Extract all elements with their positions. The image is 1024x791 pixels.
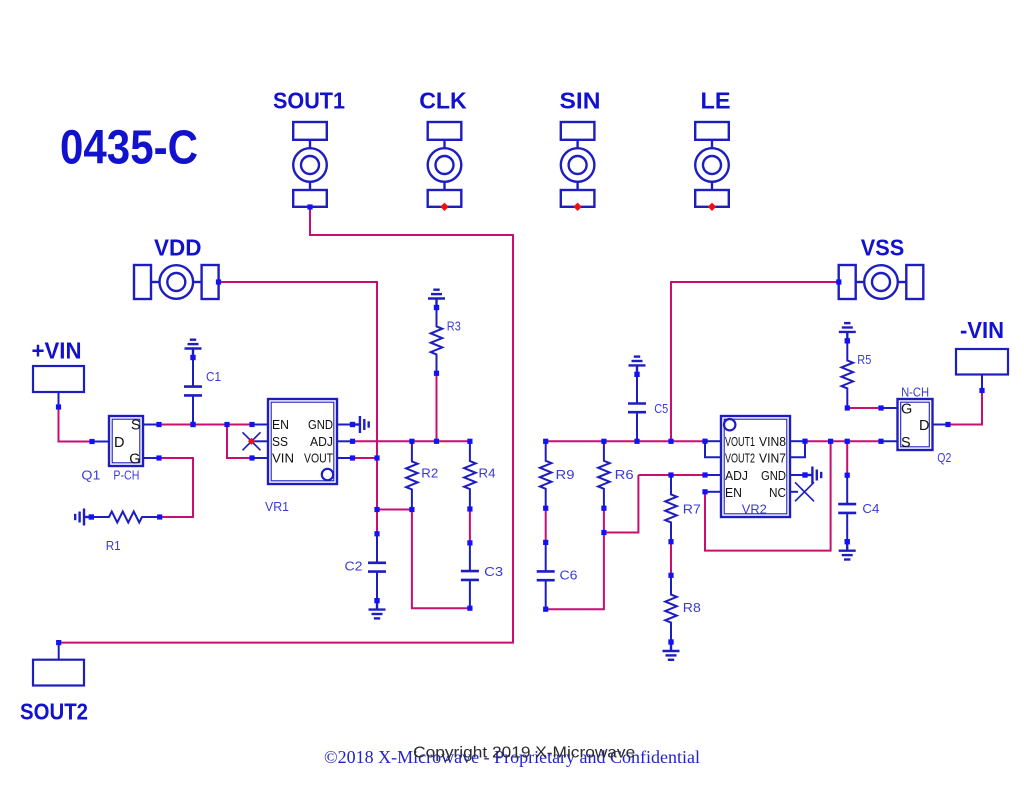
- svg-text:S: S: [901, 435, 911, 451]
- svg-text:C5: C5: [654, 401, 668, 416]
- resistor R7: [665, 475, 677, 542]
- svg-text:GND: GND: [761, 469, 786, 483]
- svg-text:VOUT2: VOUT2: [725, 451, 755, 465]
- pad -VIN: [956, 349, 1008, 375]
- svg-text:G: G: [901, 402, 912, 418]
- IC VR1 regulator: [268, 399, 337, 484]
- svg-text:SS: SS: [272, 435, 288, 449]
- junction VDD/R2 bottom: [374, 507, 379, 512]
- svg-text:R6: R6: [615, 467, 634, 482]
- svg-text:VR1: VR1: [265, 499, 289, 514]
- capacitor C4: [838, 475, 856, 542]
- svg-text:VR2: VR2: [742, 502, 767, 517]
- wire Q1 G to R1: [160, 458, 193, 517]
- wire +VIN to Q1 D: [59, 407, 93, 442]
- svg-text:D: D: [919, 418, 929, 434]
- wire R3 drop: [436, 373, 438, 441]
- svg-text:C1: C1: [206, 369, 221, 384]
- wire R4 to C3: [469, 509, 471, 543]
- resistor R5: [842, 341, 854, 408]
- capacitor C3: [461, 543, 479, 608]
- resistor R1: [91, 512, 159, 523]
- svg-text:EN: EN: [272, 418, 289, 432]
- svg-text:LE: LE: [701, 88, 731, 114]
- no-connect X on VR1 SS: [243, 432, 261, 450]
- wire R2 bottom branch: [377, 509, 412, 511]
- capacitor C2: [368, 534, 386, 601]
- svg-text:+VIN: +VIN: [32, 338, 82, 364]
- capacitor C5: [628, 374, 646, 441]
- svg-text:C2: C2: [345, 559, 363, 574]
- wire VSS to VIN row: [671, 282, 839, 441]
- svg-text:VSS: VSS: [861, 235, 905, 261]
- pad SOUT2: [33, 660, 84, 686]
- no-connect X on VR2 NC: [795, 482, 814, 501]
- svg-text:CLK: CLK: [419, 88, 467, 114]
- svg-text:VDD: VDD: [154, 235, 202, 261]
- transistor Q1 P-CH: [109, 416, 143, 466]
- capacitor C6: [537, 542, 555, 609]
- svg-text:NC: NC: [769, 486, 786, 500]
- wire ADJ row VR1: [353, 440, 470, 442]
- connector LE: [695, 122, 729, 207]
- svg-text:R7: R7: [683, 502, 701, 517]
- svg-text:C3: C3: [484, 564, 503, 579]
- resistor R4: [464, 441, 476, 509]
- transistor Q2 N-CH: [898, 399, 933, 450]
- wire R6 bottom to C6 bottom: [546, 508, 604, 609]
- wire branch to VIN pin: [227, 425, 252, 459]
- ground VR1 GND pin: [353, 416, 369, 433]
- svg-text:N-CH: N-CH: [901, 385, 929, 400]
- ground VR2 GND pin: [805, 467, 821, 484]
- wire SOUT1 to SOUT2 net: [59, 207, 513, 643]
- svg-text:ADJ: ADJ: [310, 435, 333, 449]
- ground R5: [839, 323, 856, 341]
- wire EN2 loop: [705, 441, 831, 550]
- ground R3: [428, 290, 445, 308]
- svg-text:VIN7: VIN7: [759, 451, 786, 465]
- svg-text:C6: C6: [560, 568, 578, 583]
- connector VDD: [134, 265, 219, 299]
- svg-text:G: G: [129, 452, 140, 468]
- wire R7 to R8: [670, 542, 672, 576]
- wire ADJ2 to R6 bottom: [604, 475, 639, 533]
- svg-text:R1: R1: [106, 538, 121, 553]
- svg-text:Q1: Q1: [81, 468, 100, 483]
- svg-text:D: D: [114, 435, 124, 451]
- wire right VIN8 row to Q2 S: [805, 440, 881, 442]
- resistor R2: [406, 441, 418, 509]
- wire S/C1/EN row: [159, 424, 252, 426]
- wire ADJ2 row: [638, 474, 705, 476]
- ground C1: [185, 340, 202, 358]
- wire R5 to Q2 G: [847, 407, 881, 409]
- svg-text:VIN: VIN: [272, 452, 294, 466]
- svg-text:VOUT: VOUT: [304, 452, 333, 466]
- junction R3 on ADJ row: [434, 439, 439, 444]
- svg-text:R5: R5: [857, 352, 871, 367]
- junction C1/S row: [190, 422, 195, 427]
- svg-text:VOUT1: VOUT1: [725, 435, 755, 449]
- junction R6 bottom branch: [601, 530, 606, 535]
- resistor R6: [598, 441, 610, 508]
- svg-text:R4: R4: [479, 466, 496, 481]
- ground C4: [839, 542, 856, 560]
- junction VSS drop: [668, 439, 673, 444]
- svg-text:VIN8: VIN8: [759, 435, 786, 449]
- IC VR2 regulator: [721, 416, 790, 517]
- resistor R9: [540, 441, 552, 508]
- svg-text:S: S: [131, 418, 141, 434]
- wire C4 drop: [846, 441, 848, 475]
- connector CLK: [428, 122, 462, 207]
- svg-text:0435-C: 0435-C: [60, 122, 198, 175]
- ground C5: [629, 357, 646, 375]
- resistor R3: [431, 308, 443, 374]
- svg-text:P-CH: P-CH: [113, 468, 139, 483]
- svg-text:SIN: SIN: [560, 88, 601, 114]
- wire left VIN row: [546, 440, 705, 442]
- svg-text:-VIN: -VIN: [960, 317, 1004, 343]
- svg-text:GND: GND: [308, 418, 333, 432]
- wire VDD to VOUT/C2 vertical: [219, 282, 378, 534]
- svg-text:Q2: Q2: [937, 450, 951, 465]
- wire R2 to C3 bottom: [412, 510, 470, 609]
- svg-text:SOUT2: SOUT2: [20, 699, 88, 725]
- svg-text:C4: C4: [862, 501, 879, 516]
- svg-text:R9: R9: [556, 467, 575, 482]
- connector SIN: [561, 122, 595, 207]
- wire R9 to C6: [545, 508, 547, 542]
- ground C2: [369, 601, 386, 619]
- connector VSS: [839, 265, 924, 299]
- capacitor C1: [184, 358, 202, 425]
- ground R1: [75, 509, 91, 526]
- resistor R8: [665, 575, 677, 642]
- pad +VIN: [33, 366, 84, 392]
- junction VOUT/VDD: [374, 455, 379, 460]
- junction EN loop top: [828, 439, 833, 444]
- svg-text:ADJ: ADJ: [725, 469, 748, 483]
- junction C4 top row: [845, 439, 850, 444]
- wire VOUT pin to VDD net: [353, 457, 378, 459]
- connector SOUT1: [293, 122, 327, 207]
- svg-text:EN: EN: [725, 486, 742, 500]
- svg-text:Copyright 2019 X-Microwave: Copyright 2019 X-Microwave: [413, 745, 635, 762]
- svg-text:R3: R3: [447, 318, 461, 333]
- svg-text:SOUT1: SOUT1: [273, 88, 345, 114]
- ground R8: [663, 642, 680, 660]
- wire -VIN to Q2 D: [948, 391, 982, 425]
- svg-text:R8: R8: [683, 600, 701, 615]
- svg-text:R2: R2: [421, 466, 438, 481]
